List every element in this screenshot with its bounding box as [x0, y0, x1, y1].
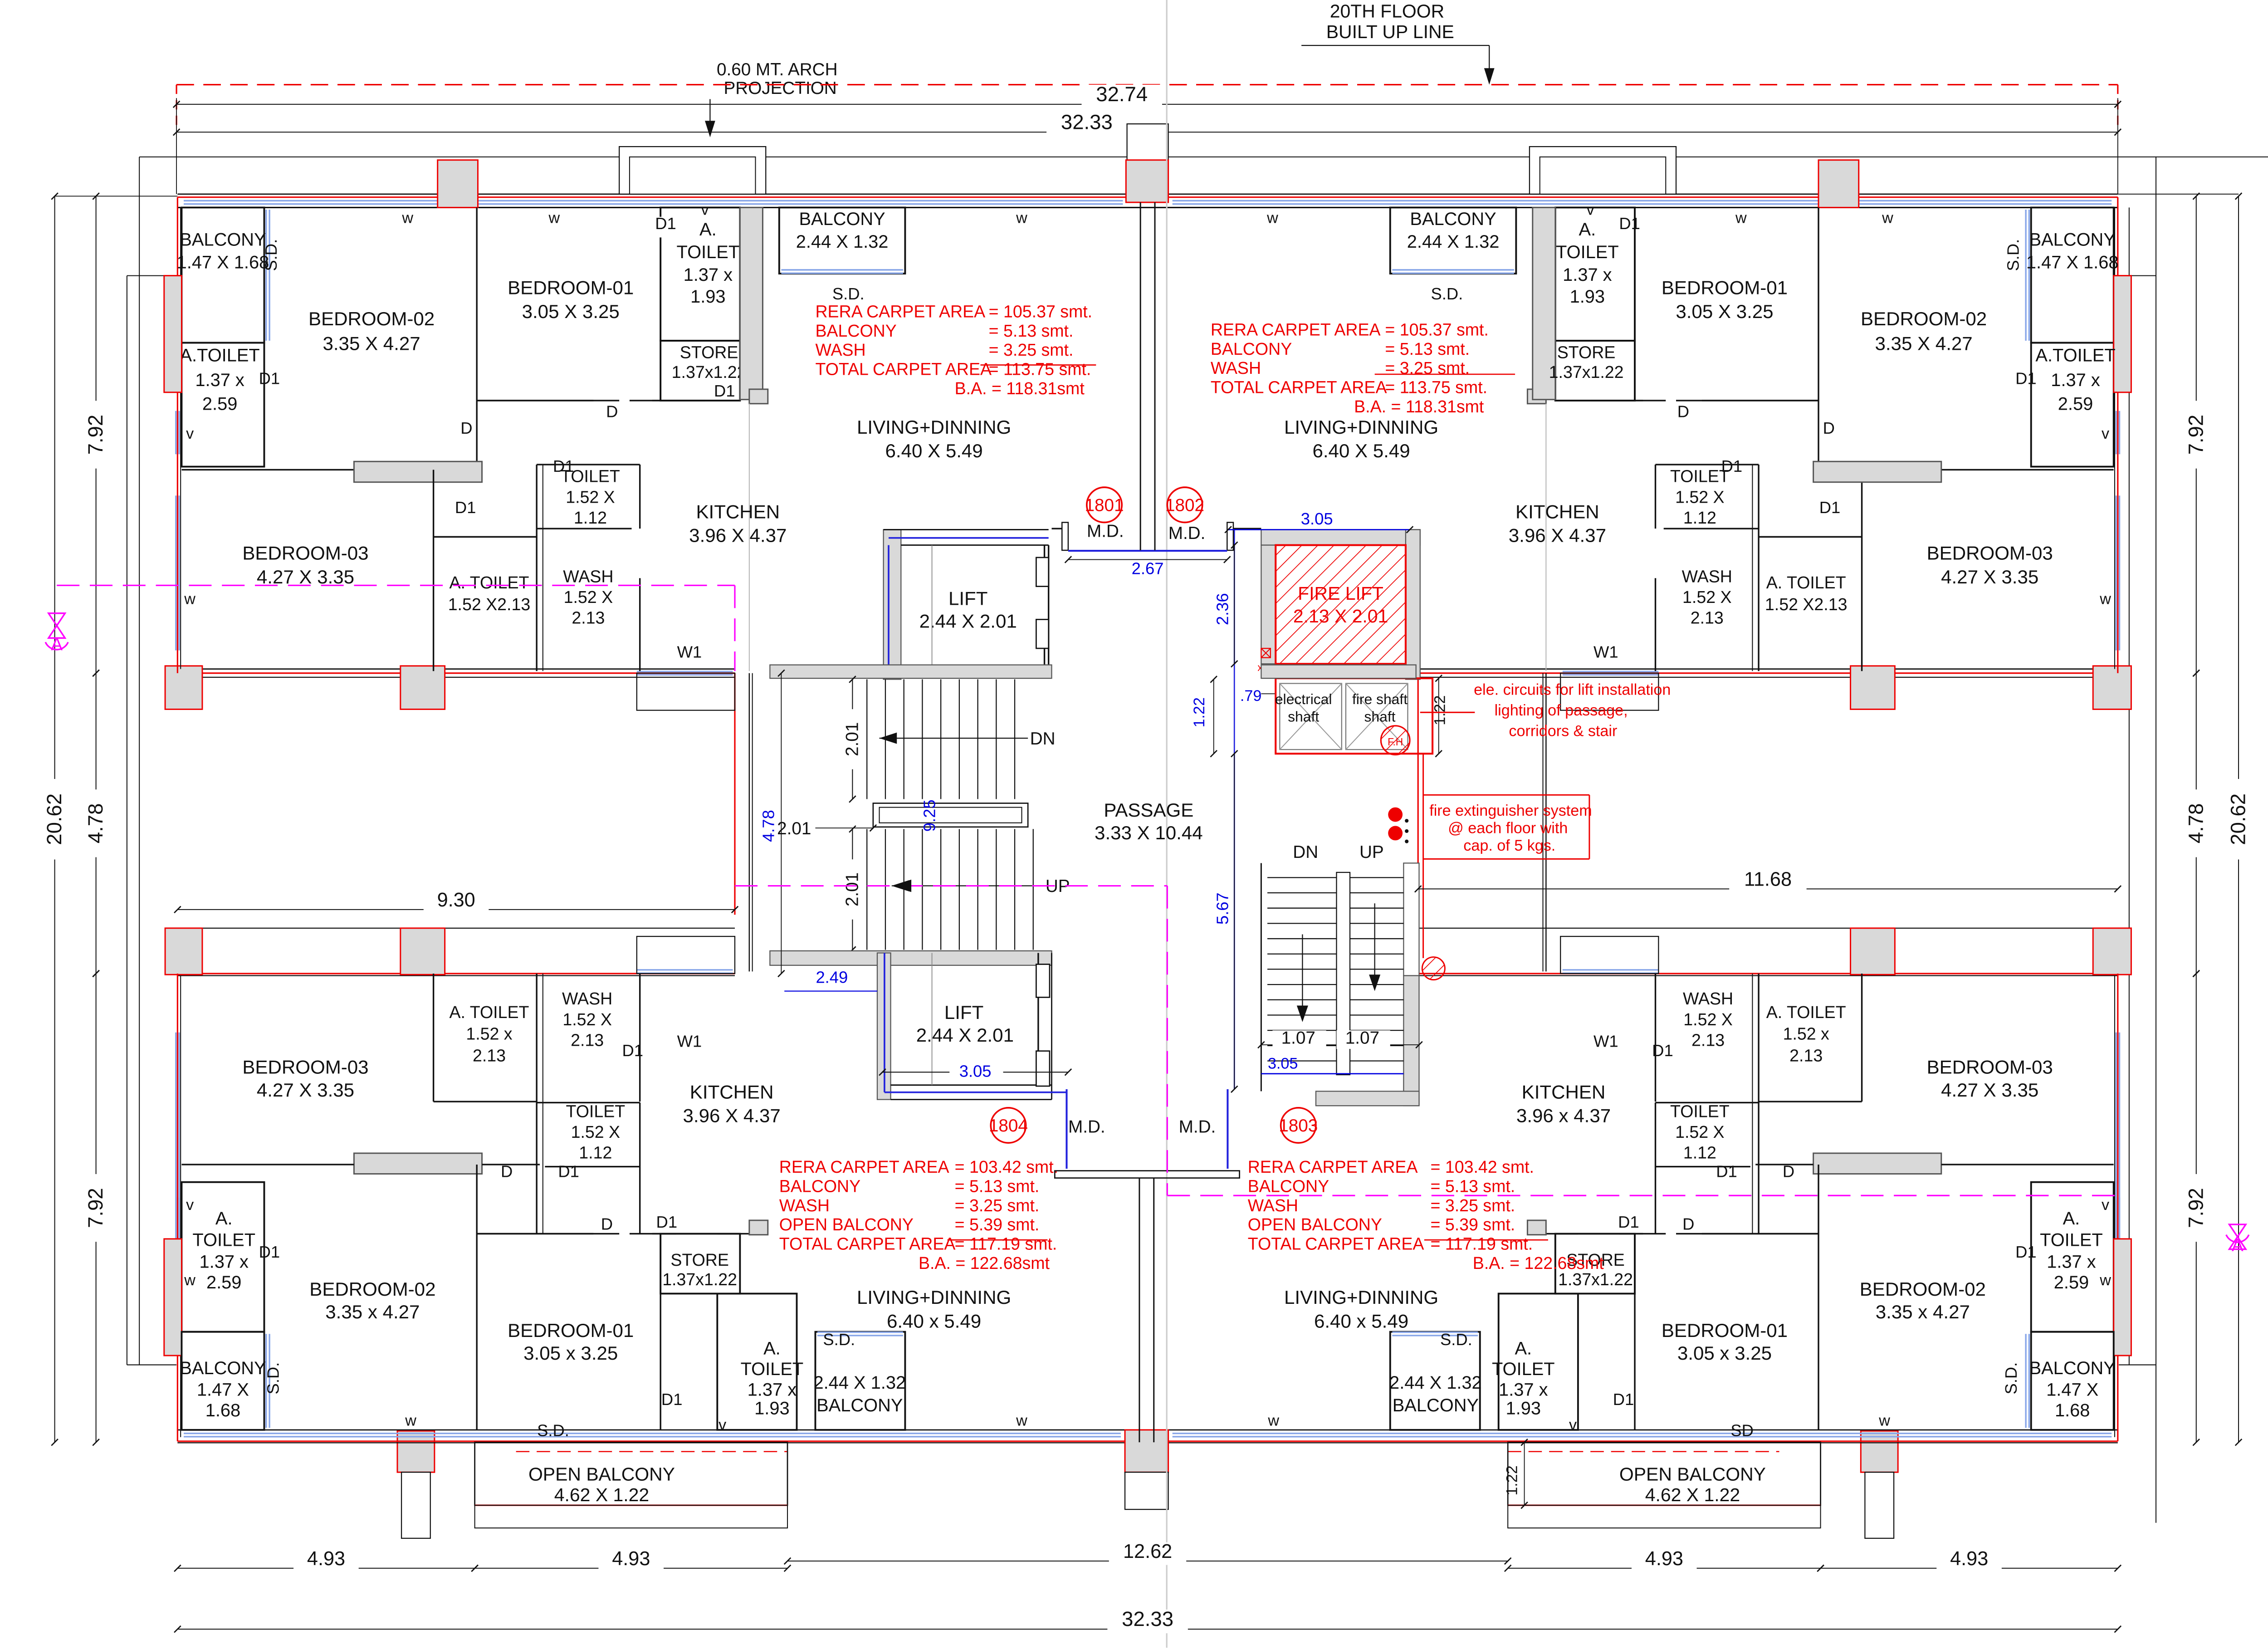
svg-text:3.96 X 4.37: 3.96 X 4.37 — [1509, 525, 1606, 546]
svg-text:TOTAL CARPET AREA: TOTAL CARPET AREA — [779, 1234, 956, 1253]
left exterior wall — [177, 197, 178, 673]
svg-text:2.44 X 1.32: 2.44 X 1.32 — [1389, 1373, 1482, 1393]
stair UP arrow — [892, 880, 909, 891]
svg-text:D1: D1 — [259, 1243, 280, 1261]
svg-text:BALCONY: BALCONY — [1393, 1395, 1479, 1415]
dim 4.78 right — [2196, 673, 2197, 974]
svg-text:A.TOILET: A.TOILET — [2035, 345, 2115, 365]
svg-text:A.TOILET: A.TOILET — [180, 345, 260, 365]
unit circle 1801 — [1087, 487, 1122, 522]
svg-text:v: v — [2102, 1196, 2109, 1214]
svg-text:w: w — [2099, 590, 2111, 607]
svg-text:3.35 x 4.27: 3.35 x 4.27 — [325, 1301, 420, 1322]
svg-text:BALCONY: BALCONY — [816, 1395, 903, 1415]
red dashed projection bottom — [516, 1451, 787, 1452]
column left wall — [164, 276, 182, 392]
svg-text:D1: D1 — [1618, 1213, 1639, 1231]
svg-text:1.37 x: 1.37 x — [200, 1252, 249, 1272]
svg-text:WASH: WASH — [779, 1196, 830, 1215]
svg-text:.79: .79 — [1240, 687, 1261, 705]
dim 4.78 blue vertical — [781, 673, 782, 974]
svg-text:2.13: 2.13 — [571, 1030, 604, 1049]
svg-text:1.12: 1.12 — [579, 1143, 612, 1162]
unit 1804 store — [660, 1234, 740, 1293]
svg-text:W1: W1 — [1593, 643, 1618, 661]
grey band under lift lobby — [770, 665, 1051, 679]
svg-text:TOILET: TOILET — [1670, 1102, 1730, 1121]
svg-text:TOTAL CARPET AREA: TOTAL CARPET AREA — [1211, 378, 1387, 397]
svg-text:= 5.13 smt.: = 5.13 smt. — [989, 321, 1074, 340]
svg-text:1.37 x: 1.37 x — [1563, 265, 1612, 285]
svg-text:1.52 X2.13: 1.52 X2.13 — [1765, 595, 1848, 614]
svg-text:1.37 x: 1.37 x — [1499, 1380, 1548, 1400]
unit circle 1804 — [991, 1108, 1026, 1143]
svg-text:4.62 X 1.22: 4.62 X 1.22 — [1645, 1484, 1740, 1505]
unit 1804 balcony 2.44 SD — [815, 1332, 905, 1430]
svg-text:v: v — [186, 1196, 194, 1214]
svg-text:D1: D1 — [1716, 1162, 1737, 1180]
svg-text:1.52 x: 1.52 x — [466, 1024, 512, 1043]
svg-text:D1: D1 — [661, 1390, 683, 1409]
svg-text:S.D.: S.D. — [832, 284, 865, 303]
svg-text:1.52 X: 1.52 X — [562, 1010, 612, 1029]
svg-text:2.67: 2.67 — [1132, 559, 1164, 578]
svg-text:LIFT: LIFT — [948, 588, 987, 609]
svg-text:v: v — [701, 201, 709, 218]
red hatched circle right notch — [1422, 957, 1445, 980]
svg-text:9.30: 9.30 — [437, 889, 475, 911]
svg-text:2.44 X 1.32: 2.44 X 1.32 — [1407, 232, 1500, 252]
unit 1804 wash/a.toilet/toilet row — [477, 1233, 593, 1234]
svg-text:BALCONY: BALCONY — [2029, 1358, 2116, 1378]
dim 20.62 right — [2238, 196, 2239, 1442]
svg-text:FIRE LIFT: FIRE LIFT — [1298, 583, 1383, 604]
svg-text:1.37 x: 1.37 x — [684, 265, 733, 285]
svg-text:BEDROOM-01: BEDROOM-01 — [1662, 1320, 1788, 1341]
svg-text:WASH: WASH — [1211, 358, 1261, 377]
svg-text:UP: UP — [1359, 842, 1384, 862]
dim 1.07 1.07 — [1261, 1044, 1419, 1045]
svg-text:W1: W1 — [1593, 1032, 1618, 1051]
bottom wall band — [177, 1430, 2117, 1430]
svg-text:TOILET: TOILET — [741, 1359, 804, 1379]
wall between 1801/1802 living rooms — [1140, 202, 1141, 550]
svg-text:W1: W1 — [677, 643, 702, 661]
M.D. doors top units — [1051, 528, 1064, 529]
svg-text:KITCHEN: KITCHEN — [696, 501, 780, 522]
red dashed arch projection line — [176, 84, 2118, 85]
svg-text:= 105.37 smt.: = 105.37 smt. — [1385, 320, 1488, 339]
svg-text:2.13: 2.13 — [1691, 608, 1724, 627]
svg-text:PASSAGE: PASSAGE — [1104, 799, 1193, 821]
svg-text:DN: DN — [1030, 729, 1056, 749]
F.H. hatched circle — [1381, 726, 1410, 755]
right dim 1.22 black — [1438, 678, 1439, 754]
svg-text:w: w — [1016, 210, 1027, 227]
svg-text:4.93: 4.93 — [612, 1548, 650, 1570]
svg-text:1.37 x: 1.37 x — [748, 1380, 797, 1400]
svg-text:fire shaft: fire shaft — [1352, 691, 1408, 707]
svg-text:A.: A. — [1579, 220, 1596, 240]
svg-text:2.59: 2.59 — [2054, 1273, 2089, 1293]
svg-text:1.37x1.22: 1.37x1.22 — [1549, 362, 1624, 382]
unit 1804 bedroom-02 — [476, 1165, 477, 1430]
svg-text:D: D — [1823, 419, 1835, 437]
svg-text:S.D.: S.D. — [262, 239, 280, 271]
dim 7.92 right top — [2196, 196, 2197, 673]
svg-text:1.93: 1.93 — [1506, 1399, 1541, 1419]
svg-text:w: w — [1878, 1412, 1890, 1430]
dim 7.92 right bottom — [2196, 974, 2197, 1442]
magenta section line upper — [57, 585, 735, 586]
grey band below stairs — [770, 951, 1051, 965]
blue escape line lift2 to MD door — [884, 953, 885, 1092]
svg-text:w: w — [1266, 210, 1278, 227]
svg-text:1.52 X: 1.52 X — [564, 588, 613, 607]
svg-text:S.D.: S.D. — [823, 1330, 855, 1349]
svg-text:BALCONY: BALCONY — [799, 209, 885, 229]
svg-text:4.93: 4.93 — [307, 1548, 345, 1570]
svg-text:D1: D1 — [1613, 1390, 1634, 1409]
svg-text:@ each floor with: @ each floor with — [1448, 819, 1568, 837]
stair left upper flight — [866, 679, 867, 799]
mirrored unit geometry right half — [1390, 207, 2131, 1430]
electrical shaft / fire shaft boxes — [1276, 678, 1432, 754]
svg-text:D1: D1 — [259, 369, 280, 388]
svg-text:LIVING+DINNING: LIVING+DINNING — [857, 416, 1011, 438]
svg-text:shaft: shaft — [1288, 709, 1319, 725]
svg-text:1.52 X2.13: 1.52 X2.13 — [448, 595, 531, 614]
svg-text:KITCHEN: KITCHEN — [690, 1081, 774, 1102]
svg-text:4.27 X 3.35: 4.27 X 3.35 — [257, 566, 354, 588]
svg-text:M.D.: M.D. — [1179, 1117, 1216, 1136]
svg-text:BALCONY: BALCONY — [1211, 339, 1292, 358]
unit 1804 a.toilet right — [717, 1293, 797, 1430]
svg-text:B.A. = 122.68smt: B.A. = 122.68smt — [1473, 1253, 1604, 1273]
stair right treads — [1267, 877, 1336, 878]
svg-text:5.67: 5.67 — [1213, 892, 1232, 925]
svg-text:v: v — [719, 1416, 726, 1434]
svg-text:3.96 x 4.37: 3.96 x 4.37 — [1516, 1105, 1611, 1126]
unit 1801 balcony 1.47x1.68 — [181, 207, 264, 343]
dim 11.68 — [1418, 888, 2118, 889]
svg-text:D1: D1 — [553, 457, 574, 475]
svg-text:4.93: 4.93 — [1645, 1548, 1683, 1570]
svg-text:6.40 x 5.49: 6.40 x 5.49 — [887, 1311, 981, 1332]
svg-text:BEDROOM-03: BEDROOM-03 — [1927, 542, 2053, 563]
svg-text:STORE: STORE — [1557, 343, 1616, 362]
svg-text:BEDROOM-01: BEDROOM-01 — [508, 1320, 634, 1341]
svg-text:7.92: 7.92 — [84, 415, 107, 455]
svg-text:1.52 X: 1.52 X — [1675, 1122, 1725, 1141]
svg-text:1.22: 1.22 — [1191, 697, 1208, 727]
svg-text:BUILT UP LINE: BUILT UP LINE — [1326, 21, 1454, 42]
svg-text:A.: A. — [215, 1209, 233, 1229]
svg-text:32.74: 32.74 — [1096, 83, 1148, 106]
svg-text:BEDROOM-02: BEDROOM-02 — [308, 308, 435, 329]
stair left lower flight — [866, 829, 867, 950]
unit 1801 balcony 2.44x1.32 — [779, 207, 905, 274]
svg-text:= 3.25 smt.: = 3.25 smt. — [955, 1196, 1040, 1215]
svg-text:1801: 1801 — [1085, 495, 1124, 515]
svg-text:3.05: 3.05 — [959, 1062, 992, 1081]
svg-text:v: v — [186, 425, 194, 442]
svg-text:1.37 x: 1.37 x — [2047, 1252, 2096, 1272]
svg-text:BEDROOM-01: BEDROOM-01 — [508, 277, 634, 299]
svg-text:3.05 X 3.25: 3.05 X 3.25 — [1676, 301, 1773, 322]
svg-text:6.40 x 5.49: 6.40 x 5.49 — [1314, 1311, 1408, 1332]
red fire extinguisher piping — [1420, 712, 1475, 713]
svg-text:1.93: 1.93 — [690, 287, 725, 307]
svg-text:BALCONY: BALCONY — [180, 1358, 266, 1378]
outer projection outline — [139, 157, 2268, 157]
dim 32.33 bottom — [177, 1629, 2117, 1630]
svg-text:TOTAL CARPET AREA: TOTAL CARPET AREA — [1248, 1234, 1424, 1253]
svg-text:BEDROOM-02: BEDROOM-02 — [309, 1278, 435, 1300]
svg-text:TOILET: TOILET — [566, 1102, 625, 1121]
svg-text:D1: D1 — [1652, 1041, 1673, 1060]
blue dim 3.05 right bottom — [1261, 1073, 1403, 1074]
svg-text:1.12: 1.12 — [1683, 1143, 1716, 1162]
svg-text:= 113.75 smt.: = 113.75 smt. — [989, 360, 1091, 379]
svg-text:M.D.: M.D. — [1068, 1117, 1105, 1136]
svg-text:D: D — [460, 419, 472, 437]
column left wall bottom — [164, 1239, 182, 1356]
svg-text:RERA CARPET AREA: RERA CARPET AREA — [1211, 320, 1381, 339]
svg-text:= 103.42 smt.: = 103.42 smt. — [955, 1157, 1058, 1176]
blue dims around fire lift — [1228, 529, 1410, 530]
svg-text:6.40 X 5.49: 6.40 X 5.49 — [885, 440, 982, 461]
dim 3.05 left bottom — [882, 1072, 1068, 1072]
svg-text:D1: D1 — [714, 382, 735, 400]
svg-text:D1: D1 — [656, 1213, 678, 1231]
svg-text:3.05 x 3.25: 3.05 x 3.25 — [523, 1342, 618, 1364]
svg-text:F.H: F.H — [1388, 736, 1403, 748]
lift bottom 2.44x2.01 — [877, 953, 891, 1099]
svg-text:4.27 X 3.35: 4.27 X 3.35 — [1941, 566, 2038, 588]
svg-text:corridors & stair: corridors & stair — [1509, 723, 1617, 740]
grey wall strip above bedroom-02 bottom — [354, 1153, 482, 1174]
svg-text:D1: D1 — [1721, 457, 1743, 475]
svg-text:= 117.19 smt.: = 117.19 smt. — [1431, 1234, 1533, 1253]
svg-text:WASH: WASH — [1683, 989, 1733, 1008]
column bottom center — [1125, 1430, 1168, 1472]
section marker A left — [49, 613, 65, 626]
svg-text:w: w — [1267, 1412, 1279, 1430]
red sprinkler dots — [1388, 808, 1403, 822]
svg-text:1.68: 1.68 — [205, 1400, 240, 1420]
svg-text:RERA CARPET AREA: RERA CARPET AREA — [779, 1157, 949, 1176]
unit circle 1803 — [1281, 1108, 1316, 1143]
svg-text:STORE: STORE — [670, 1250, 729, 1269]
svg-text:20TH FLOOR: 20TH FLOOR — [1330, 1, 1444, 22]
unit 1804 A.toilet left 1.37x2.59 — [181, 1182, 264, 1332]
svg-text:4.78: 4.78 — [2184, 803, 2207, 844]
svg-text:PROJECTION: PROJECTION — [723, 78, 836, 98]
svg-text:D1: D1 — [2015, 369, 2037, 388]
svg-text:1803: 1803 — [1279, 1116, 1318, 1136]
svg-text:1.52 X: 1.52 X — [571, 1122, 621, 1141]
svg-text:1.37x1.22: 1.37x1.22 — [672, 362, 747, 382]
svg-text:BEDROOM-03: BEDROOM-03 — [242, 542, 368, 563]
svg-text:TOILET: TOILET — [192, 1230, 255, 1250]
grey wall strip below bedroom-02 — [354, 461, 482, 482]
svg-text:1.52 X: 1.52 X — [1675, 487, 1725, 506]
svg-text:LIVING+DINNING: LIVING+DINNING — [1284, 416, 1438, 438]
svg-text:TOILET: TOILET — [1670, 467, 1730, 486]
svg-text:WASH: WASH — [1248, 1196, 1298, 1215]
svg-text:w: w — [2099, 1272, 2111, 1289]
svg-text:4.62 X 1.22: 4.62 X 1.22 — [554, 1484, 649, 1505]
svg-text:= 117.19 smt.: = 117.19 smt. — [955, 1234, 1057, 1253]
svg-text:LIVING+DINNING: LIVING+DINNING — [857, 1287, 1011, 1308]
svg-text:1.52 X: 1.52 X — [566, 487, 615, 506]
svg-text:D1: D1 — [1619, 214, 1640, 233]
svg-text:4.27 X 3.35: 4.27 X 3.35 — [1941, 1079, 2038, 1101]
svg-text:WASH: WASH — [815, 340, 865, 359]
svg-text:D1: D1 — [655, 214, 676, 233]
svg-text:shaft: shaft — [1364, 709, 1396, 725]
stair right down arrows — [1302, 934, 1303, 1006]
unit 1804 bedroom-01 — [660, 1234, 661, 1430]
fire lift block walls — [1261, 529, 1420, 545]
svg-text:2.01: 2.01 — [843, 872, 862, 906]
svg-text:1.37x1.22: 1.37x1.22 — [662, 1270, 737, 1289]
columns on bottom wall — [397, 1431, 435, 1472]
svg-text:OPEN BALCONY: OPEN BALCONY — [779, 1215, 914, 1234]
wall strip right of store — [740, 207, 763, 399]
svg-text:1.47 X: 1.47 X — [197, 1380, 249, 1400]
stair right block — [1261, 863, 1261, 1091]
svg-text:3.05 X 3.25: 3.05 X 3.25 — [522, 301, 620, 322]
unit 1801 bedroom-01 3.05x3.25 — [660, 207, 661, 401]
svg-text:= 5.39 smt.: = 5.39 smt. — [1431, 1215, 1515, 1234]
svg-text:ele. circuits for lift install: ele. circuits for lift installation — [1474, 681, 1671, 699]
svg-text:= 3.25 smt.: = 3.25 smt. — [989, 340, 1074, 359]
svg-text:1.22: 1.22 — [1504, 1465, 1521, 1495]
svg-text:S.D.: S.D. — [264, 1362, 282, 1395]
svg-text:A. TOILET: A. TOILET — [450, 1003, 529, 1022]
svg-text:3.35 X 4.27: 3.35 X 4.27 — [323, 333, 420, 354]
section marker A right — [2229, 1224, 2246, 1237]
svg-text:D1: D1 — [1819, 498, 1841, 517]
svg-text:WASH: WASH — [1682, 567, 1732, 586]
open balcony left — [475, 1442, 787, 1505]
unit 1801 A.TOILET 1.37x2.59 — [181, 343, 264, 467]
svg-text:7.92: 7.92 — [2184, 1188, 2207, 1228]
M.D. doors bottom units — [1066, 1089, 1067, 1169]
svg-text:3.05: 3.05 — [1301, 509, 1333, 528]
svg-text:3.96 X 4.37: 3.96 X 4.37 — [683, 1105, 781, 1126]
svg-text:TOILET: TOILET — [677, 242, 740, 262]
svg-text:A.: A. — [699, 220, 717, 240]
svg-text:2.44 X 2.01: 2.44 X 2.01 — [919, 611, 1017, 632]
svg-text:= 5.39 smt.: = 5.39 smt. — [955, 1215, 1040, 1234]
svg-text:4.78: 4.78 — [759, 810, 777, 842]
svg-text:1.47 X: 1.47 X — [2046, 1380, 2098, 1400]
svg-text:1804: 1804 — [989, 1116, 1028, 1136]
svg-text:D1: D1 — [622, 1041, 643, 1060]
svg-text:= 5.13 smt.: = 5.13 smt. — [955, 1177, 1040, 1196]
dim 1.22 right bottom open balcony — [1524, 1442, 1525, 1505]
centre split line — [1166, 0, 1167, 1648]
svg-text:2.59: 2.59 — [206, 1273, 241, 1293]
svg-text:3.05 x 3.25: 3.05 x 3.25 — [1677, 1342, 1772, 1364]
svg-text:BALCONY: BALCONY — [1410, 209, 1496, 229]
svg-text:12.62: 12.62 — [1123, 1541, 1172, 1562]
svg-text:11.68: 11.68 — [1744, 869, 1792, 891]
svg-text:= 3.25 smt.: = 3.25 smt. — [1431, 1196, 1515, 1215]
svg-text:2.13: 2.13 — [473, 1046, 506, 1065]
dim 9.30 — [177, 909, 735, 910]
svg-text:BEDROOM-03: BEDROOM-03 — [1927, 1057, 2053, 1078]
svg-text:A.: A. — [1515, 1339, 1532, 1359]
svg-text:2.59: 2.59 — [202, 394, 237, 414]
top wall band — [177, 194, 2117, 195]
svg-text:1.12: 1.12 — [1683, 508, 1716, 527]
svg-text:S.D.: S.D. — [1431, 284, 1463, 303]
svg-text:4.78: 4.78 — [84, 803, 107, 844]
svg-text:BALCONY: BALCONY — [1248, 1177, 1329, 1196]
svg-text:A. TOILET: A. TOILET — [1766, 573, 1846, 592]
unit 1801 bedroom-02 3.35x4.27 — [476, 207, 477, 470]
svg-text:A: A — [2232, 1236, 2244, 1255]
stair dims 2.01/9.25 — [852, 679, 853, 799]
svg-text:STORE: STORE — [680, 343, 738, 362]
svg-text:= 105.37 smt.: = 105.37 smt. — [989, 302, 1092, 321]
svg-text:BALCONY: BALCONY — [180, 230, 266, 250]
svg-text:4.27 X 3.35: 4.27 X 3.35 — [257, 1079, 354, 1101]
svg-text:1.12: 1.12 — [574, 508, 607, 527]
svg-text:32.33: 32.33 — [1061, 110, 1113, 133]
svg-text:21.84: 21.84 — [2265, 817, 2268, 868]
svg-text:7.92: 7.92 — [84, 1188, 107, 1228]
svg-text:A. TOILET: A. TOILET — [450, 573, 529, 592]
svg-text:A.: A. — [2063, 1209, 2080, 1229]
svg-text:lighting of passage,: lighting of passage, — [1495, 702, 1628, 719]
svg-text:A: A — [51, 635, 63, 655]
svg-text:1.52 X: 1.52 X — [1683, 1010, 1733, 1029]
svg-text:electrical: electrical — [1275, 691, 1332, 707]
svg-text:D: D — [1677, 402, 1689, 421]
svg-text:2.44 X 1.32: 2.44 X 1.32 — [796, 232, 889, 252]
svg-text:OPEN BALCONY: OPEN BALCONY — [528, 1464, 675, 1484]
svg-text:D1: D1 — [2015, 1243, 2037, 1261]
svg-text:BEDROOM-02: BEDROOM-02 — [1861, 308, 1987, 329]
svg-text:A. TOILET: A. TOILET — [1766, 1003, 1846, 1022]
svg-text:TOTAL CARPET AREA: TOTAL CARPET AREA — [815, 360, 992, 379]
svg-text:3.33 X 10.44: 3.33 X 10.44 — [1095, 822, 1203, 843]
dim 4.78 left — [96, 673, 97, 974]
svg-text:w: w — [1882, 210, 1893, 227]
svg-text:w: w — [1735, 210, 1747, 227]
svg-text:W1: W1 — [677, 1032, 702, 1051]
svg-text:1.52 X: 1.52 X — [1682, 588, 1732, 607]
column top center — [1126, 160, 1168, 202]
svg-text:6.40 X 5.49: 6.40 X 5.49 — [1312, 440, 1410, 461]
dim 7.92 left top — [96, 196, 97, 673]
svg-text:D: D — [606, 402, 618, 421]
svg-text:3.96 X 4.37: 3.96 X 4.37 — [689, 525, 787, 546]
svg-text:RERA CARPET AREA: RERA CARPET AREA — [1248, 1157, 1418, 1176]
projection bumps above top wall — [619, 147, 766, 194]
svg-text:7.92: 7.92 — [2184, 415, 2207, 455]
svg-text:WASH: WASH — [563, 567, 613, 586]
lift top 2.44x2.01 — [884, 529, 901, 679]
blue escape line lift — [888, 545, 889, 669]
svg-text:1.52 x: 1.52 x — [1783, 1024, 1829, 1043]
svg-text:w: w — [401, 210, 413, 227]
